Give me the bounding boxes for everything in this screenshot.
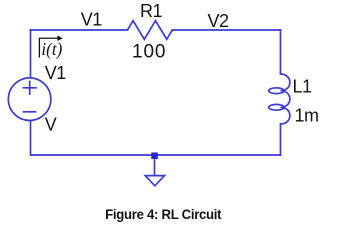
svg-text:V: V — [45, 115, 57, 135]
wire top-left vertical segment — [30, 30, 32, 78]
voltage source plus sign — [23, 82, 36, 95]
svg-text:R1: R1 — [140, 1, 162, 21]
svg-text:100: 100 — [132, 42, 166, 63]
wire top horizontal left segment — [31, 29, 128, 31]
ground stem wire — [154, 159, 156, 176]
wire top horizontal right segment — [172, 29, 280, 31]
svg-text:V1: V1 — [81, 10, 103, 30]
inductor L1 body (coil bumps) — [281, 74, 290, 124]
current probe arrowhead — [57, 35, 62, 41]
wire bottom horizontal — [31, 154, 281, 156]
svg-text:V1: V1 — [45, 63, 67, 83]
svg-text:Figure 4: RL Circuit: Figure 4: RL Circuit — [105, 207, 222, 222]
wire bottom-left vertical segment — [30, 121, 32, 155]
voltage source minus sign — [24, 111, 36, 113]
wire right vertical bottom segment — [280, 124, 282, 155]
inductor L1 crossover loop lower — [269, 104, 284, 110]
inductor L1 crossover loop upper — [269, 88, 284, 94]
junction node square — [151, 153, 158, 160]
resistor R1 body (zigzag) — [128, 21, 173, 40]
voltage source V1 circle — [8, 78, 51, 121]
svg-text:i(t): i(t) — [41, 38, 62, 59]
svg-text:1m: 1m — [295, 106, 319, 126]
ground symbol triangle — [145, 176, 164, 186]
current probe i(t) arrow — [39, 38, 57, 57]
wire right vertical top segment — [280, 30, 282, 74]
svg-text:L1: L1 — [293, 77, 313, 97]
svg-text:V2: V2 — [208, 11, 230, 31]
